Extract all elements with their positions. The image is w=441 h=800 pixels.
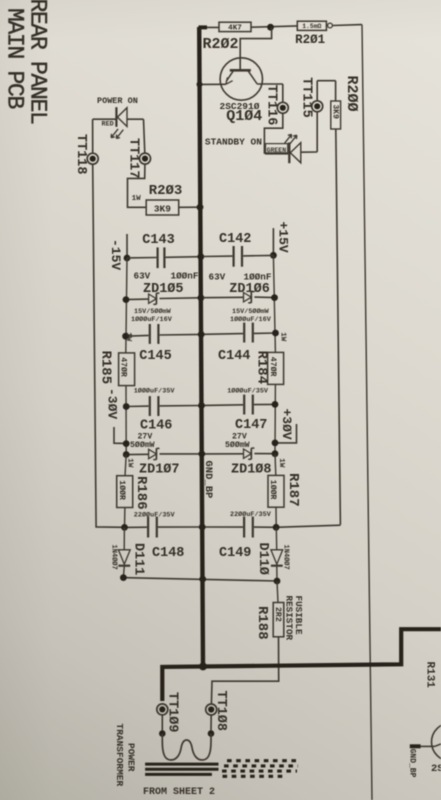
- svg-text:1N4ØØ7: 1N4ØØ7: [109, 545, 118, 570]
- svg-text:TRANSFORMER: TRANSFORMER: [114, 724, 125, 787]
- svg-text:GND_BP: GND_BP: [202, 461, 214, 499]
- svg-text:C149: C149: [219, 546, 251, 561]
- svg-text:TT1Ø9: TT1Ø9: [165, 692, 180, 733]
- svg-text:-15V: -15V: [108, 239, 123, 270]
- svg-text:TT1Ø8: TT1Ø8: [213, 691, 228, 732]
- svg-text:RESISTOR: RESISTOR: [284, 596, 295, 641]
- svg-text:R188: R188: [254, 606, 270, 640]
- svg-text:63V: 63V: [209, 271, 226, 282]
- svg-text:3K9: 3K9: [154, 203, 171, 214]
- svg-text:5ØØmW: 5ØØmW: [130, 440, 155, 450]
- svg-text:1ØØR: 1ØØR: [268, 480, 278, 500]
- svg-text:FROM SHEET 2: FROM SHEET 2: [143, 787, 215, 798]
- svg-text:R185: R185: [97, 351, 113, 385]
- svg-text:R186: R186: [133, 476, 149, 510]
- svg-text:1W: 1W: [278, 332, 286, 342]
- svg-text:1ØØnF: 1ØØnF: [244, 271, 272, 282]
- svg-text:MAIN PCB: MAIN PCB: [2, 8, 28, 109]
- svg-text:4K7: 4K7: [228, 25, 242, 33]
- svg-text:GND_BP: GND_BP: [407, 749, 416, 778]
- svg-text:5ØØmW: 5ØØmW: [225, 440, 250, 450]
- svg-text:1W: 1W: [132, 195, 142, 203]
- svg-text:GREEN: GREEN: [267, 147, 287, 154]
- svg-text:1ØØØuF/35V: 1ØØØuF/35V: [227, 386, 269, 395]
- svg-text:1ØØØuF/16V: 1ØØØuF/16V: [131, 315, 173, 324]
- svg-text:15V/5ØØmW: 15V/5ØØmW: [134, 307, 172, 316]
- svg-text:R187: R187: [285, 473, 301, 507]
- svg-text:D111: D111: [130, 543, 145, 575]
- svg-text:TT116: TT116: [263, 85, 278, 126]
- svg-text:TT117: TT117: [125, 138, 140, 179]
- svg-text:+15V: +15V: [275, 222, 290, 253]
- svg-text:-3ØV: -3ØV: [105, 388, 120, 419]
- svg-text:22ØØuF/35V: 22ØØuF/35V: [230, 510, 272, 519]
- svg-text:R2ØØ: R2ØØ: [343, 76, 360, 112]
- svg-text:2S: 2S: [431, 763, 441, 775]
- svg-text:47ØR: 47ØR: [119, 357, 129, 377]
- svg-text:RED: RED: [102, 121, 114, 129]
- svg-text:C146: C146: [140, 419, 172, 434]
- svg-text:C142: C142: [219, 232, 251, 247]
- svg-text:63V: 63V: [134, 270, 151, 281]
- svg-text:15V/5ØØmW: 15V/5ØØmW: [232, 307, 270, 316]
- svg-text:R2Ø2: R2Ø2: [203, 36, 239, 53]
- svg-text:1W: 1W: [124, 332, 132, 342]
- svg-text:D11Ø: D11Ø: [255, 543, 270, 575]
- svg-text:1ØØØuF/16V: 1ØØØuF/16V: [230, 315, 272, 324]
- svg-text:R131: R131: [424, 662, 436, 689]
- svg-text:TT118: TT118: [73, 134, 88, 175]
- svg-text:C145: C145: [139, 349, 171, 364]
- svg-text:1ØØR: 1ØØR: [117, 480, 127, 500]
- svg-text:C144: C144: [218, 349, 250, 364]
- svg-text:STANDBY ON: STANDBY ON: [205, 136, 262, 147]
- svg-text:ZD1Ø6: ZD1Ø6: [229, 282, 270, 297]
- svg-text:C148: C148: [152, 546, 184, 561]
- svg-text:1N4ØØ7: 1N4ØØ7: [281, 545, 290, 570]
- svg-text:R2Ø1: R2Ø1: [295, 33, 325, 47]
- svg-text:22ØØuF/35V: 22ØØuF/35V: [134, 510, 176, 519]
- svg-text:R184: R184: [253, 351, 269, 385]
- svg-text:R2Ø3: R2Ø3: [149, 183, 183, 199]
- svg-text:1W: 1W: [277, 458, 285, 468]
- svg-text:1ØØnF: 1ØØnF: [171, 270, 199, 281]
- svg-text:POWER ON: POWER ON: [97, 96, 138, 106]
- svg-text:Q1Ø4: Q1Ø4: [226, 108, 262, 125]
- svg-text:ZD1Ø8: ZD1Ø8: [231, 463, 272, 478]
- svg-text:TT115: TT115: [298, 77, 313, 118]
- svg-text:3K9: 3K9: [331, 105, 340, 120]
- svg-text:1.5mΩ: 1.5mΩ: [302, 23, 321, 30]
- svg-text:1ØØØuF/35V: 1ØØØuF/35V: [134, 386, 176, 395]
- svg-text:2R2: 2R2: [273, 607, 282, 622]
- svg-text:+3ØV: +3ØV: [279, 409, 294, 440]
- svg-text:C147: C147: [235, 418, 267, 433]
- svg-text:POWER: POWER: [126, 743, 137, 772]
- svg-text:C143: C143: [142, 233, 174, 248]
